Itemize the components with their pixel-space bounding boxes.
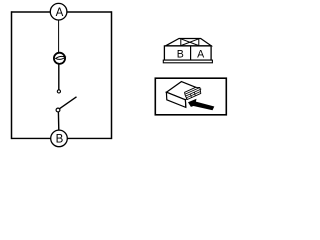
connector face view: base strip	[163, 60, 212, 63]
connector 3D view: body top face	[166, 82, 200, 100]
connector face view: terminal box	[164, 46, 211, 60]
wire: bottom (B terminal row)	[12, 137, 112, 139]
connector face view: cell divider	[190, 46, 192, 60]
wire: A to lamp	[58, 12, 60, 54]
connector 3D view: socket hull	[185, 87, 201, 99]
terminal B	[51, 130, 68, 147]
wire: top (A terminal row)	[12, 11, 112, 13]
arrow pointing at connector socket	[188, 99, 214, 111]
lamp	[54, 53, 66, 64]
wire: left side	[11, 11, 13, 139]
switch blade (open)	[60, 97, 77, 109]
connector 3D view: socket terminal grid dividers	[191, 92, 196, 98]
wire: lamp to switch	[58, 63, 60, 90]
switch contact (top)	[57, 90, 60, 93]
connector 3D view: body left front face	[166, 92, 185, 107]
connector 3D view: border box	[155, 78, 226, 115]
connector face view: X brace	[181, 39, 199, 46]
connector face view: rib vertical left	[180, 39, 182, 46]
connector 3D view: front faces dividing edge	[184, 100, 186, 108]
svg-text:B: B	[56, 133, 64, 145]
switch contact (bottom)	[56, 108, 60, 112]
connector face view: housing top trapezoid	[166, 39, 212, 46]
connector face view: rib vertical right	[198, 39, 200, 46]
connector 3D view: socket step lines	[185, 88, 201, 98]
svg-text:A: A	[197, 48, 205, 60]
wire: right side	[111, 11, 113, 139]
wire: switch to B	[57, 112, 59, 130]
svg-text:A: A	[56, 7, 64, 19]
terminal A	[50, 3, 67, 20]
svg-text:B: B	[177, 48, 184, 60]
